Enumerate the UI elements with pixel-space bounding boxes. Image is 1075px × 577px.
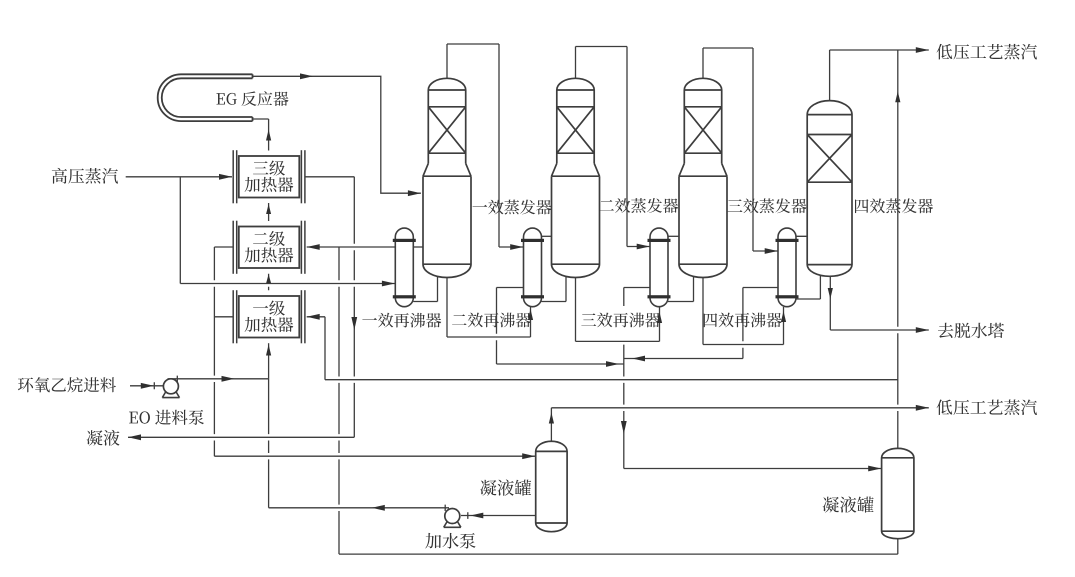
wire riser heater H1 to H2 bbox=[266, 274, 271, 291]
wire reboiler R4 return and draw bbox=[796, 236, 820, 299]
evaporator column E2 bbox=[552, 78, 600, 277]
wire water/EO junction riser bbox=[268, 379, 270, 508]
wire riser feed to heater H1 bbox=[266, 343, 271, 379]
wire reboiler R2 condensate drain bbox=[497, 288, 624, 367]
wire E3 bottoms to reboiler R4 bbox=[703, 278, 786, 345]
heater H3 (third-stage) bbox=[233, 150, 305, 203]
heater H2 (second-stage) bbox=[233, 221, 305, 274]
label EG reactor bbox=[216, 91, 288, 106]
wire E1 bottoms to reboiler R2 bbox=[447, 278, 533, 338]
wire heater H3 outlet to condensate export bbox=[128, 177, 357, 440]
label reboiler R1 bbox=[362, 313, 441, 328]
reboiler R3 bbox=[648, 228, 671, 307]
wire vapour header riser to heater H1 bbox=[307, 314, 325, 380]
label condensate tank V1 bbox=[480, 480, 531, 496]
EG reactor U-tube shell bbox=[158, 74, 253, 121]
label reboiler R4 bbox=[704, 313, 782, 328]
label condensate export bbox=[87, 430, 120, 446]
evaporator column E1 bbox=[423, 78, 471, 277]
wire reboiler R3 return and draw bbox=[668, 236, 694, 301]
evaporator column E4 bbox=[807, 101, 852, 277]
label evaporator E3 bbox=[728, 198, 807, 213]
label evaporator E4 bbox=[855, 198, 933, 213]
wire evaporator E2 overhead to reboiler R3 bbox=[576, 47, 650, 250]
wire reboiler R1 to heater H2 bbox=[307, 244, 396, 250]
wire E4 bottoms to dehydration tower bbox=[828, 276, 929, 333]
wire reboiler R3 condensate collector to tank V2 bbox=[621, 288, 881, 472]
label EO feed bbox=[18, 377, 116, 392]
label EO feed pump bbox=[129, 410, 204, 425]
wire pump P2 discharge to junction riser bbox=[269, 505, 449, 511]
label to dehydration tower bbox=[938, 323, 1004, 338]
wire evaporator E4 overhead to LP steam bbox=[830, 47, 929, 101]
reboiler R1 bbox=[393, 228, 416, 307]
wire evaporator E3 overhead to reboiler R4 bbox=[703, 48, 778, 254]
label reboiler R2 bbox=[452, 313, 531, 328]
condensate tank V2 bbox=[882, 448, 914, 538]
wire heater H2/H1 condensate drain to tank V1 bbox=[214, 247, 535, 459]
label reboiler R3 bbox=[581, 313, 660, 328]
condensate tank V1 bbox=[536, 441, 567, 531]
reboiler R4 bbox=[776, 228, 799, 307]
wire tank V1 flash vapour to LP steam header bbox=[549, 405, 929, 441]
wire tank V1 to pump P2 suction bbox=[461, 512, 536, 519]
label LP process steam (right) bbox=[937, 399, 1037, 415]
wire steam branch to reboiler R1 bbox=[180, 177, 395, 287]
label LP process steam (top) bbox=[937, 44, 1037, 60]
wire heater H3 outlet riser to reactor inlet bbox=[253, 119, 272, 151]
wire E2 bottoms to reboiler R3 bbox=[576, 278, 663, 342]
wire long vapour header bbox=[325, 379, 898, 381]
wire tank V2 bottoms return header bbox=[339, 247, 898, 554]
wire EO feed into pump P1 bbox=[130, 382, 164, 389]
label water pump bbox=[425, 533, 475, 549]
wire riser heater H2 to H3 bbox=[266, 203, 271, 221]
reboiler R2 bbox=[521, 228, 544, 307]
label evaporator E1 bbox=[473, 200, 552, 215]
label high-pressure steam bbox=[52, 168, 118, 184]
label condensate tank V2 bbox=[823, 496, 874, 512]
label evaporator E2 bbox=[599, 198, 678, 213]
wire reboiler R4 condensate drain bbox=[624, 288, 778, 362]
evaporator column E3 bbox=[679, 78, 727, 277]
wire reboiler R1 return and draw bbox=[413, 247, 437, 302]
wire reactor outlet to evaporator E1 feed bbox=[253, 73, 421, 196]
wire high-pressure steam to heater H3 bbox=[126, 174, 232, 180]
wire pump P1 discharge to heater riser bbox=[168, 376, 269, 382]
wire reboiler R2 return and draw bbox=[542, 236, 567, 301]
wire tank V2 flash vapour riser bbox=[895, 50, 900, 448]
heater H1 (first-stage) bbox=[233, 290, 305, 343]
pump P2 (water pump) bbox=[444, 509, 461, 528]
pump P1 (EO feed pump) bbox=[162, 379, 179, 398]
wire evaporator E1 overhead to reboiler R2 bbox=[447, 44, 523, 250]
